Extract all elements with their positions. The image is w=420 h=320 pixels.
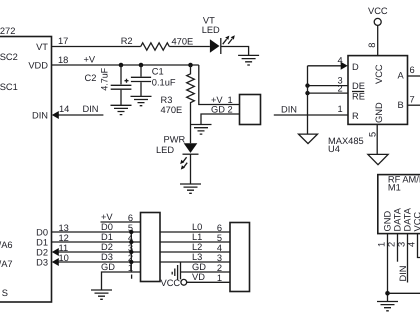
capacitor C1 0.1uF <box>140 65 142 77</box>
svg-text:6: 6 <box>410 65 415 75</box>
svg-text:GD: GD <box>211 105 225 115</box>
svg-text:/A7: /A7 <box>0 259 13 269</box>
arrow into pin 10 <box>52 258 59 266</box>
svg-text:DIN: DIN <box>281 104 297 114</box>
svg-text:D0: D0 <box>101 222 113 232</box>
svg-text:+V: +V <box>101 212 113 222</box>
VCC bars <box>172 265 177 280</box>
svg-text:R2: R2 <box>121 36 133 46</box>
svg-text:GND: GND <box>374 102 384 123</box>
svg-text:DIN: DIN <box>398 265 408 281</box>
svg-text:7: 7 <box>410 95 415 105</box>
svg-text:D: D <box>352 62 359 72</box>
svg-text:2: 2 <box>338 84 343 94</box>
GD stub to ground <box>102 272 141 290</box>
svg-text:14: 14 <box>59 104 69 114</box>
wire A pin6 <box>408 75 420 77</box>
svg-text:S: S <box>2 288 8 298</box>
svg-text:B: B <box>398 100 404 110</box>
ground triangle (DE/RE) <box>299 134 318 144</box>
svg-text:VDD: VDD <box>28 61 48 71</box>
svg-text:470E: 470E <box>161 105 183 115</box>
svg-text:D3: D3 <box>36 258 48 268</box>
ground (C1) <box>131 96 152 105</box>
svg-text:18: 18 <box>58 55 68 65</box>
junction C1 <box>139 63 144 68</box>
svg-text:1: 1 <box>377 242 387 247</box>
svg-text:4.7uF: 4.7uF <box>100 68 110 91</box>
junction dot D3 <box>129 260 133 264</box>
svg-text:+V: +V <box>211 95 223 105</box>
wire D pin4 <box>308 65 342 67</box>
junction dot DE <box>305 83 309 87</box>
wire D1 row <box>52 241 141 243</box>
svg-text:D1: D1 <box>101 232 113 242</box>
svg-text:A: A <box>398 71 405 81</box>
svg-text:OSC2: OSC2 <box>0 52 18 62</box>
connector J2 box <box>141 213 161 282</box>
wire M1 pin3 DIN <box>407 234 409 283</box>
wire GND pin5 <box>376 124 378 154</box>
wire R3 to PWR LED <box>190 114 192 144</box>
module M1 RF box <box>378 175 420 234</box>
connector box (+V/GD) <box>240 95 261 125</box>
svg-text:VD: VD <box>192 272 205 282</box>
svg-text:DIN: DIN <box>83 104 99 114</box>
svg-text:470E: 470E <box>172 37 194 47</box>
svg-text:LED: LED <box>202 25 220 35</box>
ground (J2 GD) <box>91 290 112 299</box>
svg-text:C2: C2 <box>85 73 97 83</box>
wire DIN stub <box>55 114 103 116</box>
wire DE pin3 <box>308 85 349 87</box>
resistor R2 <box>141 43 170 50</box>
svg-text:GND: GND <box>383 211 393 232</box>
ground (GD connector) <box>191 125 212 135</box>
svg-text:PWR: PWR <box>164 135 186 145</box>
arrow into pin 11 <box>52 248 59 256</box>
svg-text:L0: L0 <box>192 222 202 232</box>
svg-text:DE: DE <box>352 81 365 91</box>
svg-text:1: 1 <box>338 104 343 114</box>
svg-text:1: 1 <box>217 273 222 283</box>
arrow into D <box>341 62 348 70</box>
svg-text:/A6: /A6 <box>0 240 13 250</box>
svg-text:L1: L1 <box>192 232 202 242</box>
svg-text:U4: U4 <box>328 144 340 154</box>
svg-text:OSC1: OSC1 <box>0 82 18 92</box>
wire B pin7 <box>408 104 420 106</box>
svg-text:VCC: VCC <box>374 64 384 84</box>
wire GND net to edge <box>388 292 420 294</box>
wire M1 pin2 stub <box>397 234 399 262</box>
svg-text:DIN: DIN <box>32 111 48 121</box>
ground (VT LED) <box>238 55 259 65</box>
svg-text:DATA: DATA <box>403 207 413 231</box>
svg-text:8: 8 <box>367 43 377 48</box>
wire M1 pin4 VCC to edge <box>418 234 420 258</box>
junction C2 <box>119 63 124 68</box>
arrow into pin 14 <box>52 111 59 119</box>
LED VT emission arrows <box>223 39 232 44</box>
svg-text:D1: D1 <box>36 238 48 248</box>
capacitor C2 4.7uF <box>120 65 122 84</box>
wire R2 to VT LED <box>169 46 210 48</box>
svg-text:D0: D0 <box>36 228 48 238</box>
resistor R3 470E <box>187 65 195 114</box>
junction dot D0 <box>129 230 133 234</box>
wire VT pin17 to R2 <box>52 46 141 48</box>
VCC circle <box>181 279 187 285</box>
svg-text:GD: GD <box>192 262 206 272</box>
wire D3 row <box>55 261 141 263</box>
svg-text:R3: R3 <box>161 95 173 105</box>
bus joining D0-D3 to GD <box>130 232 132 279</box>
svg-text:LED: LED <box>156 145 174 155</box>
wire D2 row <box>55 251 141 253</box>
IC U? PT2272 encoder box <box>0 37 52 303</box>
wire LED PWR to ground <box>190 154 192 184</box>
svg-text:PT2272: PT2272 <box>0 26 15 36</box>
svg-text:DATA: DATA <box>393 207 403 231</box>
svg-text:1: 1 <box>228 95 233 105</box>
svg-text:L2: L2 <box>192 242 202 252</box>
junction R3 <box>188 63 193 68</box>
svg-text:RE: RE <box>352 92 365 102</box>
svg-text:5: 5 <box>368 132 378 137</box>
VCC tap on VD: stem <box>180 262 182 279</box>
svg-text:GD: GD <box>101 262 115 272</box>
svg-text:0.1uF: 0.1uF <box>152 78 176 88</box>
wire M1 pin1 GND <box>387 234 389 302</box>
ground triangle (pin5) <box>368 154 388 164</box>
IC U4 MAX485 box <box>348 56 408 125</box>
svg-text:C1: C1 <box>152 67 164 77</box>
svg-text:VCC: VCC <box>161 278 181 288</box>
svg-text:D2: D2 <box>36 248 48 258</box>
svg-text:R: R <box>352 111 359 121</box>
junction dot RE <box>305 91 309 95</box>
junction dot D1 <box>129 240 133 244</box>
ground (M1) <box>377 302 398 311</box>
junction dot M1 GND <box>385 291 390 296</box>
+V rail from VDD pin18 <box>52 64 199 66</box>
svg-text:M1: M1 <box>388 183 401 193</box>
ground (C2) <box>111 105 132 114</box>
svg-text:VCC: VCC <box>413 212 420 232</box>
svg-text:VT: VT <box>36 42 48 52</box>
wire GD to ground <box>201 114 240 125</box>
wire LED to ground <box>221 47 249 56</box>
connector J3 box <box>230 223 250 292</box>
svg-text:VCC: VCC <box>368 6 388 16</box>
junction dot D2 <box>129 250 133 254</box>
svg-text:+V: +V <box>84 55 96 65</box>
wire +V rail drop to connector J? <box>199 65 240 105</box>
ground (PWR LED) <box>180 184 201 193</box>
svg-text:2: 2 <box>228 105 233 115</box>
svg-text:D3: D3 <box>101 252 113 262</box>
svg-text:L3: L3 <box>192 252 202 262</box>
LED PWR emission arrows <box>183 157 187 168</box>
svg-text:17: 17 <box>58 36 68 46</box>
wire RE pin2 <box>308 92 349 94</box>
wire D0 row <box>52 231 141 233</box>
bus D/DE/RE to ground <box>307 66 309 134</box>
wire R pin1 DIN <box>274 114 348 116</box>
svg-text:D2: D2 <box>101 242 113 252</box>
